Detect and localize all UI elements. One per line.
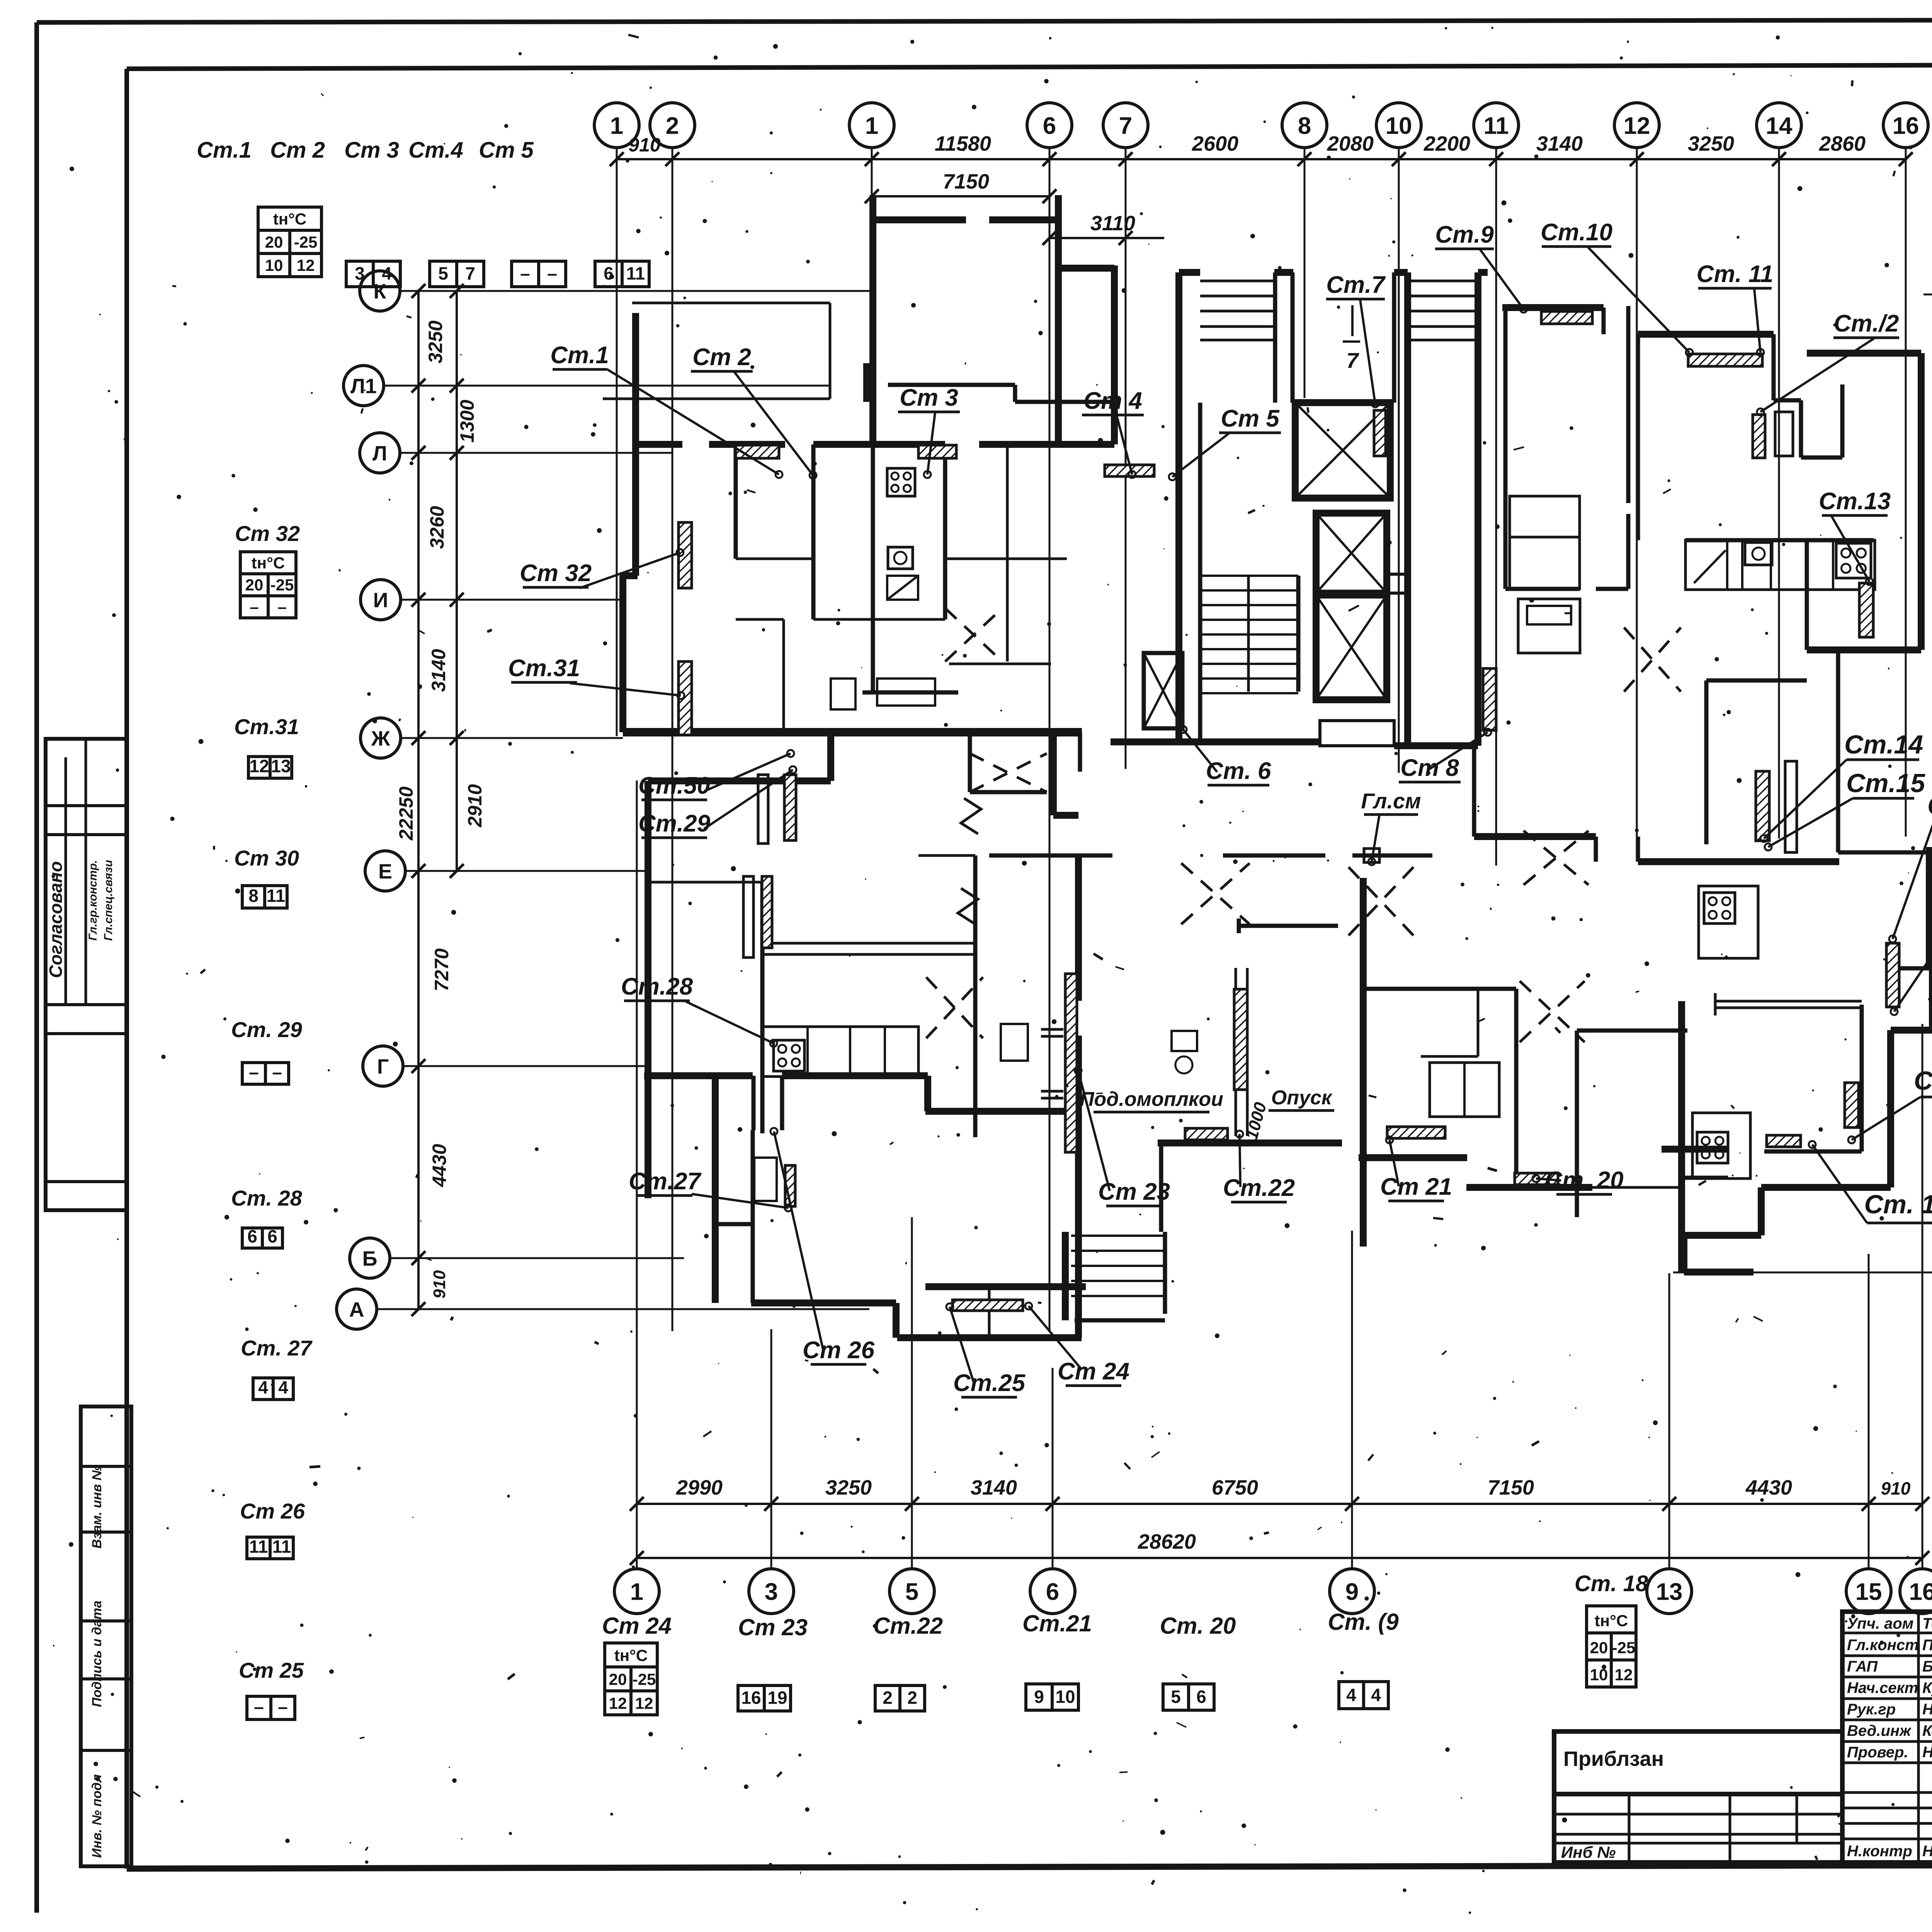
- axis line Zh: [401, 737, 623, 739]
- leader St 8: [1430, 732, 1488, 769]
- pipe chase double bar: [1785, 761, 1797, 852]
- cross upper-right small: [1624, 628, 1681, 692]
- kitchen bottom h1792: [862, 690, 958, 695]
- svg-text:Cm 3: Cm 3: [900, 384, 958, 411]
- svg-text:Гл.конст: Гл.конст: [1847, 1637, 1919, 1654]
- leader St 12: [1760, 338, 1874, 412]
- svg-text:Cm./2: Cm./2: [1834, 310, 1899, 337]
- svg-text:910: 910: [628, 134, 661, 156]
- svg-text:3140: 3140: [428, 649, 449, 692]
- title block signature table: [1842, 1612, 1932, 1862]
- svg-text:2: 2: [907, 1688, 917, 1708]
- svg-text:7270: 7270: [431, 948, 452, 991]
- wall core left v3051: [1175, 272, 1182, 742]
- loggia line h784: [632, 302, 830, 304]
- axis line bottom 13: [1668, 1273, 1670, 1569]
- white chase box: [1775, 412, 1793, 456]
- wall h2559: [1364, 987, 1516, 991]
- riser bar St8: [1483, 668, 1496, 730]
- wall jog v4768: [1840, 384, 1845, 457]
- svg-text:Cm 26: Cm 26: [803, 1337, 875, 1364]
- radiator left wall b: [762, 876, 772, 948]
- svg-text:Подпись и дата: Подпись и дата: [90, 1600, 104, 1707]
- radiator bottom-left bar: [952, 1300, 1023, 1311]
- wall v4676 lower: [1805, 540, 1809, 650]
- toilet center: [1172, 1031, 1197, 1051]
- legend boxes St 19: [1339, 1682, 1364, 1709]
- wall jog v4661: [1799, 400, 1803, 457]
- svg-text:Коломоец: Коломоец: [1922, 1723, 1932, 1740]
- svg-text:1: 1: [865, 112, 878, 139]
- wall h2214 center: [989, 854, 1112, 858]
- kitchen counter upper-right: [1685, 540, 1875, 590]
- lower-right bottom wall: [1761, 1184, 1891, 1191]
- svg-text:–: –: [547, 264, 557, 284]
- svg-text:-25: -25: [270, 576, 294, 594]
- radiator upper-left 2: [918, 445, 956, 458]
- leader St 31: [570, 683, 681, 696]
- fridge upper-right: [1694, 550, 1726, 583]
- wall h2958 center: [1158, 1139, 1342, 1146]
- small shaft lower-left of core: [1144, 653, 1182, 728]
- wall top middle room: [873, 216, 966, 223]
- wall core right v3825: [1475, 272, 1481, 746]
- legend boxes St 4: [512, 261, 539, 287]
- svg-text:Cm.1: Cm.1: [550, 342, 609, 369]
- staircase walls: [1198, 403, 1202, 742]
- svg-text:6: 6: [267, 1226, 277, 1246]
- svg-text:И: И: [373, 588, 388, 612]
- svg-text:12: 12: [1624, 112, 1650, 139]
- svg-text:Инв. № подл: Инв. № подл: [90, 1774, 104, 1858]
- leader St 18: [1852, 1097, 1920, 1140]
- svg-text:14: 14: [1766, 112, 1793, 139]
- wall entrance left L: [1062, 1232, 1069, 1320]
- svg-text:Cm 5: Cm 5: [1221, 405, 1280, 432]
- partition h1718: [949, 663, 1051, 665]
- svg-text:2200: 2200: [1423, 132, 1470, 155]
- svg-text:Николаенко: Николаенко: [1922, 1843, 1932, 1860]
- legend boxes St 2: [346, 261, 373, 287]
- wall v4239: [1636, 334, 1640, 540]
- radiator St18 v: [1845, 1083, 1859, 1128]
- svg-text:6: 6: [1196, 1687, 1206, 1707]
- svg-text:Приблзан: Приблзан: [1563, 1747, 1664, 1770]
- svg-text:19: 19: [767, 1688, 787, 1708]
- svg-text:Cm. 29: Cm. 29: [231, 1017, 302, 1042]
- svg-text:Николаенко: Николаенко: [1922, 1744, 1932, 1761]
- svg-text:4: 4: [1346, 1685, 1356, 1705]
- wall connector v2795: [1078, 732, 1082, 772]
- wall v4150 step: [1602, 308, 1606, 334]
- axis circle top 11 at x=3872: [1474, 103, 1519, 148]
- wall h1398 kitchen top: [1685, 538, 1874, 543]
- legend boxes St 22: [875, 1685, 900, 1711]
- axis circle top 14 at x=4604: [1757, 103, 1801, 148]
- leader St 25: [950, 1307, 974, 1383]
- wall axis6 v2739: [1055, 195, 1062, 444]
- radiator St27 bar: [785, 1165, 795, 1206]
- wall corridor v2726: [1050, 732, 1057, 815]
- svg-text:Cm.31: Cm.31: [234, 714, 299, 739]
- wall central v2791: [1075, 855, 1082, 1001]
- radiator St32 wall bar: [679, 522, 692, 588]
- radiator upper-right 2: [1688, 354, 1762, 366]
- fridge upper-left kitchen: [887, 576, 918, 600]
- svg-text:Под.омоплкои: Под.омоплкои: [1080, 1088, 1223, 1111]
- entrance stairs: [1163, 1232, 1167, 1314]
- svg-text:Cm. (9: Cm. (9: [1328, 1609, 1399, 1635]
- wc upper-left: [831, 679, 855, 709]
- axis circle top 7 at x=2913: [1103, 103, 1148, 148]
- svg-text:13: 13: [1656, 1578, 1683, 1605]
- axis circle left К: [360, 271, 400, 311]
- wall h2214 short: [918, 854, 975, 857]
- kitchen counters lower-left: [762, 1027, 918, 1077]
- leader St 24: [1029, 1306, 1082, 1370]
- svg-text:-25: -25: [294, 233, 318, 251]
- top dimension line: [617, 158, 1906, 160]
- legend boxes St 25: [247, 1696, 271, 1719]
- wall step v3005: [1159, 1143, 1163, 1232]
- stove bottom-right: [1697, 1132, 1728, 1163]
- wall upper-right top c: [1807, 350, 1921, 357]
- wall v4214: [1626, 306, 1631, 503]
- axis circle left Л1: [344, 366, 384, 406]
- axis circle bottom 13 at x=4320: [1647, 1569, 1692, 1614]
- axis circle left Б: [350, 1238, 390, 1278]
- svg-text:Инб №: Инб №: [1561, 1843, 1616, 1861]
- svg-text:1: 1: [610, 112, 623, 139]
- wall partition h1603: [813, 618, 945, 621]
- radiator St13 bar: [1859, 583, 1873, 637]
- svg-text:Cm. 19: Cm. 19: [1864, 1190, 1932, 1219]
- svg-text:3140: 3140: [1536, 132, 1583, 155]
- glst node square: [1364, 849, 1379, 862]
- axis circle top 2 at x=1740: [650, 103, 695, 148]
- axis line 2: [672, 148, 673, 1331]
- wall core bottom: [1111, 738, 1320, 745]
- cross center: [1349, 867, 1413, 935]
- svg-text:6: 6: [1043, 112, 1056, 139]
- svg-text:3110: 3110: [1090, 212, 1135, 235]
- svg-text:6: 6: [604, 264, 614, 284]
- svg-text:3: 3: [765, 1578, 778, 1605]
- stove lower-left: [774, 1040, 804, 1071]
- wall upper-left outer left upper: [632, 313, 639, 576]
- svg-text:910: 910: [1881, 1478, 1911, 1498]
- axis circle top 8 at x=3376: [1282, 103, 1327, 148]
- radiator upper-left 1: [736, 445, 779, 458]
- wall v1851: [712, 1078, 719, 1303]
- svg-text:16: 16: [1893, 112, 1919, 139]
- radiator St14 v: [1756, 771, 1769, 841]
- inner frame bottom: [127, 1864, 1932, 1869]
- sheet outer border top: [37, 19, 1932, 22]
- axis circle top 16 at x=4932: [1883, 103, 1928, 148]
- axis circle top 6 at x=2716: [1027, 103, 1072, 148]
- svg-text:tн°C: tн°C: [252, 554, 285, 572]
- wc lower-left room: [1001, 1024, 1028, 1061]
- svg-text:Cm 23: Cm 23: [1098, 1179, 1170, 1205]
- cross center corridor: [1181, 863, 1250, 924]
- axis line bottom 6: [1052, 1368, 1054, 1569]
- svg-text:16: 16: [741, 1688, 761, 1708]
- svg-text:Cm 18: Cm 18: [1914, 1066, 1932, 1095]
- bath lower-left block: [754, 1158, 777, 1201]
- axis circle left А: [337, 1289, 377, 1329]
- wc block upper-right: [1510, 496, 1580, 589]
- svg-text:Cm.31: Cm.31: [508, 655, 580, 682]
- wall core inner v3300: [1273, 272, 1277, 403]
- leader St 14: [1764, 760, 1847, 838]
- svg-text:22250: 22250: [395, 786, 417, 840]
- bath block right: [1430, 1063, 1499, 1117]
- bottom overall dimension line: [637, 1557, 1922, 1559]
- inner frame left: [124, 69, 129, 1869]
- axis circle top 1 at x=1596: [594, 103, 639, 148]
- svg-text:Cm.1: Cm.1: [197, 138, 252, 163]
- wall h1761: [1706, 679, 1807, 683]
- svg-text:11: 11: [249, 1536, 268, 1556]
- axis line bottom 9: [1351, 1231, 1353, 1569]
- wall h1682: [1807, 646, 1921, 653]
- leader St 2: [734, 372, 813, 475]
- radiator St20 bar: [1515, 1173, 1558, 1185]
- svg-text:tн°C: tн°C: [273, 210, 306, 228]
- svg-text:–: –: [278, 1697, 288, 1717]
- svg-text:Cm. 28: Cm. 28: [231, 1186, 302, 1210]
- left dimension line outer: [417, 291, 420, 1309]
- radiator St31 wall bar: [679, 662, 692, 735]
- svg-text:А: А: [349, 1298, 364, 1321]
- svg-text:3250: 3250: [825, 1476, 872, 1499]
- svg-text:12: 12: [635, 1694, 653, 1713]
- leader St 9: [1480, 249, 1524, 309]
- wall v4590: [1772, 334, 1776, 400]
- axis line bottom 5: [911, 1217, 913, 1569]
- wall h3330 big room bottom: [925, 1283, 1086, 1290]
- radiator St21 bar: [1387, 1127, 1445, 1138]
- loggia line h1032: [603, 398, 830, 400]
- svg-text:–: –: [250, 598, 259, 616]
- wall v3896: [1503, 306, 1508, 589]
- axis circle bottom 3 at x=1996: [749, 1569, 794, 1614]
- partition bottom rooms: [988, 1287, 991, 1338]
- leader St 4: [1117, 416, 1132, 474]
- svg-text:20: 20: [1590, 1639, 1608, 1657]
- svg-text:Полышин: Полышин: [1922, 1637, 1932, 1654]
- wall corridor left v2884: [1111, 265, 1118, 444]
- svg-text:Cm 2: Cm 2: [270, 138, 325, 163]
- axis circle top 1 at x=2256: [849, 103, 894, 148]
- wall upper-left bottom main: [623, 728, 1082, 736]
- wall core right v3643: [1404, 272, 1411, 746]
- lower-right apartment cross wall: [1678, 1001, 1685, 1272]
- pipe tees on central wall: [1041, 1028, 1063, 1031]
- svg-text:Cm 32: Cm 32: [235, 521, 300, 546]
- wall v3924: [1514, 989, 1519, 1187]
- svg-text:4430: 4430: [429, 1144, 450, 1187]
- wall partition v2446: [943, 444, 947, 619]
- svg-text:Cm 21: Cm 21: [1380, 1173, 1452, 1200]
- wall step h996: [888, 383, 1015, 387]
- svg-text:ГАП: ГАП: [1847, 1658, 1878, 1675]
- wall upper-left outer left lower: [619, 576, 626, 732]
- zigzag break 1: [961, 798, 981, 834]
- svg-text:10: 10: [1386, 112, 1412, 139]
- axis circle bottom 5 at x=2360: [889, 1569, 934, 1614]
- svg-text:Взам. инв №: Взам. инв №: [90, 1465, 104, 1548]
- bottom dimension line: [637, 1503, 1922, 1505]
- wall column stub axis1b: [863, 363, 870, 402]
- legend boxes St 31: [248, 757, 270, 778]
- legend boxes St 27: [253, 1378, 273, 1400]
- svg-text:Cm 24: Cm 24: [602, 1613, 672, 1639]
- svg-text:Толсминев: Толсминев: [1922, 1615, 1932, 1632]
- svg-text:4: 4: [278, 1377, 288, 1397]
- svg-text:12: 12: [249, 756, 269, 776]
- axis circle top 12 at x=4236: [1614, 103, 1659, 148]
- elevator shaft stub box: [1387, 574, 1410, 593]
- leader Gl st: [1372, 815, 1379, 862]
- axis circle left Л: [360, 433, 400, 473]
- svg-text:6750: 6750: [1212, 1476, 1258, 1499]
- wall corridor right v3815: [1472, 746, 1476, 837]
- partition upper-left lower: [782, 619, 785, 732]
- leader St 23: [1078, 1070, 1110, 1191]
- wall right outer v4993: [1926, 847, 1932, 968]
- wall apartment bottom h2784: [644, 1072, 753, 1079]
- svg-text:3250: 3250: [425, 320, 446, 363]
- svg-text:2: 2: [666, 112, 679, 139]
- svg-text:3250: 3250: [1688, 132, 1734, 155]
- wall right outer v4972: [1918, 353, 1925, 650]
- svg-text:Cm 3: Cm 3: [344, 138, 399, 163]
- svg-text:Cm 30: Cm 30: [234, 846, 299, 870]
- svg-text:5: 5: [438, 264, 448, 284]
- wall step v2627: [1013, 385, 1017, 402]
- svg-text:Cm.10: Cm.10: [1541, 219, 1612, 246]
- left stamp upper table: [46, 739, 126, 1210]
- lower-right outer right jog: [1929, 966, 1932, 1030]
- svg-text:12: 12: [297, 256, 315, 274]
- svg-text:5: 5: [905, 1578, 918, 1605]
- section mark 7: [1351, 305, 1354, 336]
- axis line 14: [1778, 148, 1780, 838]
- plumbing wall double h2441: [762, 942, 975, 945]
- riser pipes Opusk: [1235, 968, 1237, 1136]
- axis circle bottom 1 at x=1648: [614, 1569, 659, 1614]
- svg-text:28620: 28620: [1138, 1530, 1196, 1553]
- wall h3073 right: [1466, 1184, 1592, 1191]
- legend boxes St 3: [430, 261, 457, 287]
- svg-text:Cm. 18: Cm. 18: [1575, 1571, 1648, 1596]
- wall jog h1036: [1774, 398, 1801, 403]
- stove upper-left kitchen: [887, 468, 915, 496]
- svg-text:Б: Б: [362, 1247, 378, 1270]
- svg-text:Cm 4: Cm 4: [1083, 388, 1142, 414]
- svg-text:Е: Е: [378, 860, 392, 883]
- svg-text:Cm.15: Cm.15: [1846, 769, 1925, 798]
- svg-text:Упч. аом: Упч. аом: [1847, 1615, 1913, 1632]
- axis circle left Г: [363, 1046, 403, 1086]
- bath upper-left: [877, 679, 935, 706]
- svg-text:Н.контр: Н.контр: [1847, 1843, 1912, 1860]
- svg-text:2990: 2990: [676, 1476, 723, 1499]
- svg-text:7150: 7150: [1488, 1476, 1534, 1499]
- axis line bottom 16: [1922, 1024, 1923, 1569]
- kitchen wall v2259 lower: [871, 444, 875, 692]
- svg-text:1: 1: [630, 1578, 643, 1605]
- axis line 6: [1049, 148, 1051, 1331]
- legend table St.1: [258, 207, 321, 230]
- svg-text:Николаенко: Николаенко: [1922, 1701, 1932, 1718]
- corridor stair lines right flight: [1408, 280, 1478, 282]
- wall h2996 right of entrance: [1359, 1154, 1467, 1161]
- axis line 1b: [871, 148, 873, 444]
- svg-text:Л1: Л1: [350, 374, 377, 398]
- legend table St 32: [240, 552, 296, 574]
- svg-text:2910: 2910: [464, 784, 486, 827]
- title block priblzan grid: [1554, 1794, 1842, 1862]
- elevator shaft 2: [1316, 513, 1387, 593]
- leader St 16: [1893, 821, 1932, 939]
- wall step jog: [620, 572, 638, 579]
- wall door jamb v2024: [780, 1076, 784, 1130]
- axis circle bottom 16 at x=4975: [1900, 1569, 1932, 1614]
- svg-text:Cm 32: Cm 32: [520, 560, 592, 587]
- svg-text:10: 10: [1055, 1687, 1075, 1707]
- wall h2876 room bottom: [925, 1108, 1082, 1115]
- svg-text:Cm.13: Cm.13: [1819, 488, 1891, 515]
- svg-text:Cm.29: Cm.29: [638, 810, 711, 837]
- radiator St19 h: [1767, 1135, 1801, 1147]
- svg-text:4430: 4430: [1745, 1476, 1792, 1499]
- svg-text:15: 15: [1855, 1578, 1882, 1605]
- legend table St 18: [1587, 1606, 1636, 1633]
- axis line D right: [1928, 998, 1932, 1000]
- axis line L: [400, 452, 672, 454]
- radiator St16 v: [1886, 943, 1899, 1007]
- sink upper-left kitchen: [888, 547, 913, 569]
- leader St 13: [1832, 516, 1869, 582]
- radiator left wall a: [743, 876, 753, 957]
- axis line 1: [616, 148, 618, 736]
- wall h2506: [1899, 966, 1929, 971]
- axis line B left: [390, 1257, 684, 1259]
- partition v2607 long: [1006, 559, 1009, 662]
- axis line L1: [384, 385, 830, 387]
- cross mid-right: [1524, 831, 1588, 885]
- kitchen counter mid-right: [1699, 886, 1758, 958]
- svg-text:Cm. 20: Cm. 20: [1160, 1613, 1236, 1639]
- axis line 12: [1636, 148, 1638, 857]
- svg-text:8: 8: [1298, 112, 1311, 139]
- wall h2021 top: [648, 777, 831, 784]
- axis circle bottom 15 at x=4836: [1846, 1569, 1891, 1614]
- cross bottom-right: [1520, 981, 1585, 1042]
- axis line N: [1923, 294, 1932, 296]
- leader St 17: [1894, 930, 1932, 1012]
- leader St.1: [607, 369, 779, 474]
- svg-text:Cm 26: Cm 26: [240, 1499, 305, 1523]
- radiator St12 v: [1753, 415, 1765, 458]
- axis circle bottom 6 at x=2724: [1030, 1569, 1075, 1614]
- svg-text:Cm.25: Cm.25: [953, 1370, 1026, 1396]
- wall stub h2396: [1239, 924, 1338, 928]
- svg-text:2: 2: [883, 1688, 893, 1708]
